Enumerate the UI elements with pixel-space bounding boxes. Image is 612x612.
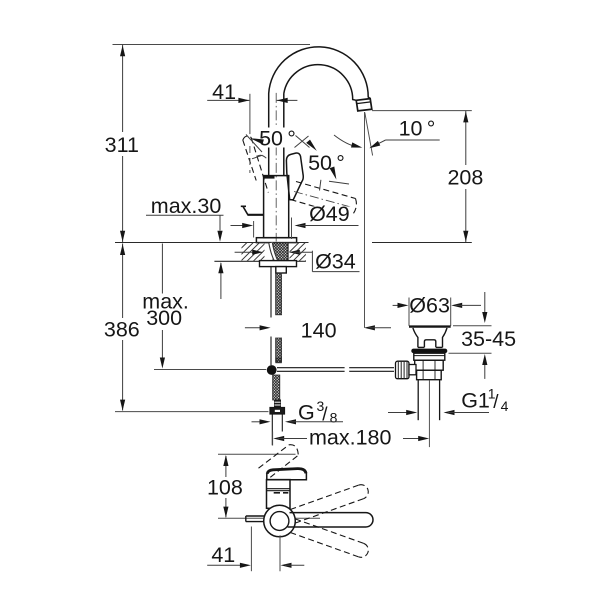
svg-text:386: 386 [104,317,140,341]
svg-text:41: 41 [212,80,236,104]
svg-text:Ø63: Ø63 [409,293,450,317]
svg-text:35-45: 35-45 [461,327,516,351]
svg-text:/: / [322,405,328,426]
svg-text:Ø34: Ø34 [315,249,356,273]
svg-text:50 °: 50 ° [308,151,345,175]
svg-text:max.30: max.30 [151,194,222,218]
svg-text:208: 208 [447,165,483,189]
svg-text:Ø49: Ø49 [309,202,350,226]
svg-text:41: 41 [211,543,235,567]
svg-text:311: 311 [105,133,139,157]
svg-text:300: 300 [146,306,182,330]
svg-text:G1: G1 [461,389,490,413]
svg-text:8: 8 [330,410,338,426]
svg-text:108: 108 [207,476,243,500]
svg-text:50 °: 50 ° [259,127,296,151]
svg-text:140: 140 [301,318,337,342]
svg-text:4: 4 [501,398,509,414]
svg-text:/: / [493,392,499,413]
svg-text:max.180: max.180 [309,426,392,450]
svg-text:10 °: 10 ° [399,117,436,141]
svg-text:G: G [298,401,315,425]
